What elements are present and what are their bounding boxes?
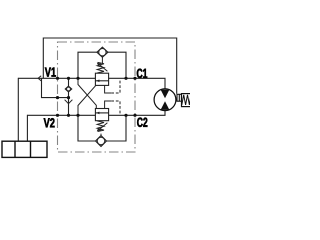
shaft coupling bbox=[177, 94, 182, 101]
motor triangle bottom bbox=[161, 101, 170, 110]
wire: crossover diagonal A (V1 to relief 2 inlet) bbox=[78, 78, 96, 108]
port label V2 bbox=[44, 118, 55, 127]
pilot line of relief valve 1 (dashed part) bbox=[111, 79, 120, 93]
motor triangle top bbox=[161, 90, 170, 99]
junction dots bbox=[56, 77, 137, 117]
wire: bottom check-valve bypass line y=141 bbox=[78, 115, 126, 141]
adjustment arrow of top relief valve bbox=[100, 65, 108, 71]
directional valve box (3 cells) bottom-left bbox=[2, 141, 47, 157]
relief valve 1 body (V1 to V2) bbox=[95, 73, 108, 85]
wire: top check-valve bypass line y=52.2 bbox=[78, 52, 126, 78]
wire: crossover diagonal B (relief 1 outlet to V2) bbox=[78, 85, 96, 115]
enclosure dash-dot boundary box bbox=[58, 42, 136, 152]
pilot line of relief valve 2 (solid part) bbox=[105, 101, 112, 109]
wire: C2 line to motor bbox=[109, 110, 165, 115]
check valve (anti-cavitation) ball and seat bbox=[65, 86, 73, 104]
wire: V2 drop to valve box bbox=[26, 115, 28, 141]
brake spring bbox=[182, 95, 191, 105]
port label V1 bbox=[45, 68, 56, 77]
hydraulic motor bbox=[154, 89, 176, 111]
wire: cross-line check branch x=68.5 bbox=[68, 78, 70, 115]
wire: stub spring to bottom diamond bbox=[100, 134, 102, 136]
check valve C1 bypass (diamond with ball) bbox=[97, 47, 108, 57]
wire: V1 line y=78.3 bbox=[18, 77, 95, 79]
adjustment arrow of bottom relief valve bbox=[100, 123, 108, 129]
relief valve 2 body (V2 to V1) bbox=[95, 109, 108, 121]
spring of top relief valve bbox=[97, 62, 104, 73]
wire: C1 line to motor bbox=[109, 78, 165, 89]
check valve C2 bypass (diamond with ball) bbox=[96, 136, 107, 147]
pilot line of relief valve 2 (dashed part) bbox=[111, 101, 120, 115]
wire: V1 drop to valve box bbox=[17, 78, 19, 141]
relief valve 1 internal arrowhead bbox=[96, 80, 99, 83]
port label C2 bbox=[137, 118, 147, 127]
port label C1 bbox=[137, 69, 147, 78]
brake housing bbox=[182, 94, 192, 107]
relief valve 2 internal arrowhead bbox=[96, 112, 99, 115]
flow arrow on V1 line bbox=[38, 76, 41, 81]
spring of bottom relief valve bbox=[97, 121, 104, 132]
wire: top brake pilot line from V1 riser to brake bbox=[43, 38, 176, 94]
wire: stub diamond to spring bbox=[101, 57, 103, 63]
pilot line of relief valve 1 (solid part) bbox=[105, 85, 112, 93]
wire: branch V1 to anti-cavitation check seat bbox=[42, 78, 69, 97]
wire: V2 line y=115.3 bbox=[27, 114, 95, 116]
